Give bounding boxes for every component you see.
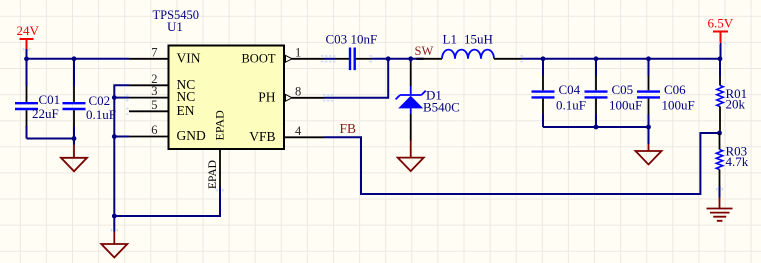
diode D1 [396,91,426,100]
node C06 bottom [646,125,651,130]
svg-text:4.7k: 4.7k [726,154,749,169]
wire C03 to SW [356,58,372,60]
svg-text:10nF: 10nF [351,31,378,46]
svg-text:3: 3 [151,84,157,98]
svg-text:U1: U1 [167,19,183,34]
svg-text:C06: C06 [664,82,686,97]
svg-text:8: 8 [295,84,301,98]
svg-text:1: 1 [295,45,301,59]
svg-text:6.5V: 6.5V [708,16,734,31]
wire pin6 tie [114,136,129,138]
capacitor C01 [26,59,28,86]
svg-text:VIN: VIN [177,50,201,65]
ground under C06 [648,127,650,144]
svg-text:L1: L1 [443,31,457,46]
capacitor C06 [646,56,651,61]
earth ground bottom right [707,198,733,221]
IC U1 TPS5450 body [169,46,285,150]
wire EPAD bottom run [114,187,220,216]
pin 4 VFB stub [285,136,325,138]
svg-text:C03: C03 [326,31,348,46]
node C05 bottom [594,125,599,130]
svg-text:GND: GND [177,128,206,143]
capacitor C05 [594,56,599,61]
svg-text:C04: C04 [559,82,581,97]
node BOOT drop junction [386,56,391,61]
svg-text:4: 4 [295,124,302,138]
pin 7 VIN stub [129,58,169,60]
node 24V input junction [24,56,29,61]
ground under D1 [410,141,412,158]
inductor L1 [417,58,424,60]
wire FB run [324,133,720,194]
svg-text:C05: C05 [612,82,634,97]
node C02 bottom junction [72,136,77,141]
resistor R03 [719,133,721,150]
svg-text:22uF: 22uF [32,106,59,121]
wire 24V drop [26,49,28,59]
svg-text:100uF: 100uF [662,98,695,113]
svg-text:EPAD: EPAD [212,110,226,141]
svg-text:5: 5 [151,98,157,112]
wire C01 bottom run [27,138,75,140]
wire pin1 to C03 [324,58,336,60]
svg-text:6: 6 [151,123,157,137]
node pin6 junction [112,134,117,139]
wire 6.5V drop [720,43,722,59]
pin 6 GND stub [129,136,169,138]
resistor R01 [719,59,721,76]
svg-text:20k: 20k [726,97,746,112]
svg-text:SW: SW [415,44,434,58]
svg-text:100uF: 100uF [609,98,642,113]
pin 2 NC stub [129,84,169,86]
capacitor C02 [73,59,75,86]
ground bottom left [113,216,115,232]
pin 5 EN stub [129,110,169,112]
ground under C02 [73,139,75,145]
svg-text:15uH: 15uH [464,31,493,46]
node SW junction [408,56,413,61]
wire pin2 down run [114,85,129,216]
svg-text:24V: 24V [17,23,40,38]
power port 24V [20,39,34,49]
svg-text:C02: C02 [89,93,111,108]
pin 1 BOOT stub [292,58,325,60]
node output junction [718,56,723,61]
pin 8 PH stub [292,97,325,99]
svg-text:BOOT: BOOT [241,51,275,65]
capacitor C03 [350,48,355,71]
svg-text:0.1uF: 0.1uF [556,98,586,113]
svg-text:7: 7 [151,45,157,59]
diode D1 drop [410,59,412,63]
node pin3 junction [112,95,117,100]
power port 6.5V [713,32,728,44]
svg-text:FB: FB [340,121,357,136]
svg-text:0.1uF: 0.1uF [86,107,116,122]
wire pin3 tie [114,97,129,99]
pin EPAD stub [219,150,221,188]
wire input rail [27,58,130,60]
pin 3 NC stub [129,97,169,99]
svg-text:VFB: VFB [249,129,275,144]
svg-text:EN: EN [177,103,195,118]
svg-text:B540C: B540C [423,99,460,114]
wire L1 to output rail [521,58,720,60]
svg-text:EPAD: EPAD [207,160,219,189]
node feedback junction [717,131,722,136]
svg-text:PH: PH [258,89,276,104]
capacitor C04 [541,56,546,61]
wire PH riser [324,59,388,98]
node C02 top junction [72,56,77,61]
off-grid endpoint markers [321,55,323,57]
node bottom junction [112,214,117,219]
wire cap bank bottom [543,126,649,128]
